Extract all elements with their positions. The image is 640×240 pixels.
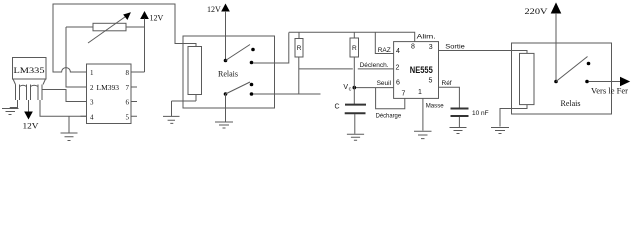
label 220V <box>525 6 549 16</box>
label 10 nF <box>472 110 489 117</box>
relay RL2 body <box>512 43 612 114</box>
svg-text:2: 2 <box>396 65 400 72</box>
supply +12V arrow for relay 1 <box>222 5 229 61</box>
comparator U1 LM393 body <box>87 64 132 124</box>
label 12V relay 1 <box>207 5 221 14</box>
svg-text:Sortie: Sortie <box>445 44 465 51</box>
ground below capacitor C <box>347 134 364 140</box>
ground right of LM393 <box>163 101 180 123</box>
svg-text:10 nF: 10 nF <box>472 110 489 117</box>
svg-text:Relais: Relais <box>561 99 581 108</box>
NE555 pin numbers <box>396 43 433 97</box>
svg-text:Déclench.: Déclench. <box>360 62 389 69</box>
wire sensor right lead down to ground rail <box>40 100 87 116</box>
node Vc junction dot <box>353 86 357 90</box>
svg-text:3: 3 <box>429 44 433 51</box>
resistor R2 <box>350 32 359 104</box>
svg-text:Vers le Fer: Vers le Fer <box>591 87 628 96</box>
relay RL1 coil <box>188 47 202 95</box>
wire sortie pin3 to relay RL2 coil <box>439 51 528 54</box>
svg-text:c: c <box>349 86 352 92</box>
wire relay RL1 contact to 555 supply rail <box>253 33 289 64</box>
svg-text:R: R <box>352 45 357 52</box>
label Vers le Fer <box>591 87 628 96</box>
svg-text:R: R <box>297 45 302 52</box>
svg-text:12V: 12V <box>23 122 39 131</box>
supply arrow -12V below sensor <box>25 100 32 119</box>
wire relay RL2 coil bottom to ground <box>500 105 527 127</box>
svg-text:5: 5 <box>429 78 433 85</box>
ground below relay RL1 <box>215 122 233 128</box>
svg-text:3: 3 <box>90 99 94 107</box>
ground below Masse <box>414 131 432 138</box>
label Alim <box>417 33 436 40</box>
svg-text:1: 1 <box>418 89 422 96</box>
wire to iron with arrow <box>589 78 630 86</box>
svg-text:2: 2 <box>90 84 94 92</box>
label Sortie <box>445 44 465 51</box>
svg-text:6: 6 <box>396 80 400 87</box>
wire LM393 pin1 feedback loop to relay coil <box>53 4 196 72</box>
supply +12V arrow top left <box>141 12 148 72</box>
wire pot left corner down to LM393 pin2 <box>66 27 87 87</box>
resistor R1 <box>295 32 303 94</box>
ground below relay RL2 coil <box>491 128 509 134</box>
svg-text:1: 1 <box>90 69 94 77</box>
wire relay RL1 pivot2 to ground <box>225 94 227 122</box>
relay RL1 switch 1 <box>224 45 255 65</box>
svg-text:LM393: LM393 <box>97 83 120 92</box>
svg-text:8: 8 <box>411 43 415 50</box>
svg-text:RAZ: RAZ <box>378 47 391 54</box>
relay RL2 coil <box>520 53 535 104</box>
wire discharge pin7 loop <box>376 88 405 109</box>
label Declench <box>360 62 389 69</box>
wire sensor right lead to LM393 pin3 (step) <box>42 90 87 102</box>
svg-text:8: 8 <box>126 69 130 77</box>
svg-text:6: 6 <box>126 99 130 107</box>
svg-text:5: 5 <box>126 113 130 121</box>
wire masse pin1 to ground <box>422 98 424 130</box>
ground left of sensor <box>2 108 19 115</box>
wire relay coil bottom to ground <box>172 95 197 102</box>
label 12V bottom left <box>23 122 39 131</box>
svg-text:12V: 12V <box>150 14 164 23</box>
svg-text:4: 4 <box>396 48 400 55</box>
relay RL1 body <box>183 36 275 108</box>
capacitor 10nF <box>451 109 469 128</box>
svg-text:LM335: LM335 <box>14 65 45 75</box>
resistor R2 label <box>352 45 357 52</box>
supply 220V arrow <box>552 4 561 82</box>
LM393 labels <box>90 69 130 121</box>
svg-text:C: C <box>335 104 340 111</box>
svg-text:7: 7 <box>126 84 130 92</box>
label Decharge <box>376 113 402 120</box>
resistor R1 label <box>297 45 302 52</box>
label Masse <box>426 103 444 110</box>
svg-text:220V: 220V <box>525 6 549 16</box>
potentiometer body <box>93 23 126 31</box>
potentiometer wire right <box>126 26 145 28</box>
wire branch down to ground under LM393 <box>68 116 70 132</box>
label Seuil <box>377 80 392 87</box>
capacitor C <box>345 105 366 134</box>
wire ref pin5 to 10nF <box>439 87 460 108</box>
svg-text:4: 4 <box>90 113 94 121</box>
svg-text:Décharge: Décharge <box>376 113 402 120</box>
wire Vc node to Seuil pin6 <box>354 87 393 89</box>
label RAZ <box>378 47 391 54</box>
wire R1 to trigger pin2 (gap at R2 crossing) <box>299 68 394 70</box>
potentiometer arrow <box>88 13 130 43</box>
svg-text:12V: 12V <box>207 5 221 14</box>
ground below LM393 pin4 <box>61 133 78 141</box>
label Ref <box>442 80 452 87</box>
capacitor C label <box>335 104 340 111</box>
node Vc label <box>343 84 351 93</box>
svg-text:Alim.: Alim. <box>417 33 436 40</box>
relay RL2 label <box>561 99 581 108</box>
svg-text:NE555: NE555 <box>410 65 433 75</box>
wire relay RL1 contact2 dangling <box>253 93 321 95</box>
wire 12V down to LM393 pin8 <box>131 71 145 73</box>
svg-text:Relais: Relais <box>218 69 238 78</box>
sensor LM335 label <box>14 65 45 75</box>
wire sensor left lead to ground <box>10 100 18 108</box>
wire RAZ pin4 to rail <box>375 32 393 53</box>
relay RL1 switch 2 <box>224 82 254 96</box>
svg-text:Seuil: Seuil <box>377 80 392 87</box>
potentiometer wire left <box>66 26 93 28</box>
svg-text:Réf: Réf <box>442 80 452 87</box>
sensor LM335 package <box>13 58 47 101</box>
relay RL2 switch <box>554 57 590 84</box>
NE555 label <box>410 65 433 75</box>
wire 555 supply rail <box>289 32 415 41</box>
LM393 pin stubs <box>81 72 138 116</box>
svg-text:Masse: Masse <box>426 103 444 110</box>
relay RL1 label <box>218 69 238 78</box>
label 12V top left <box>150 14 164 23</box>
timer U2 NE555 body <box>394 42 439 99</box>
ground below 10nF <box>450 128 467 134</box>
svg-text:7: 7 <box>402 91 406 98</box>
